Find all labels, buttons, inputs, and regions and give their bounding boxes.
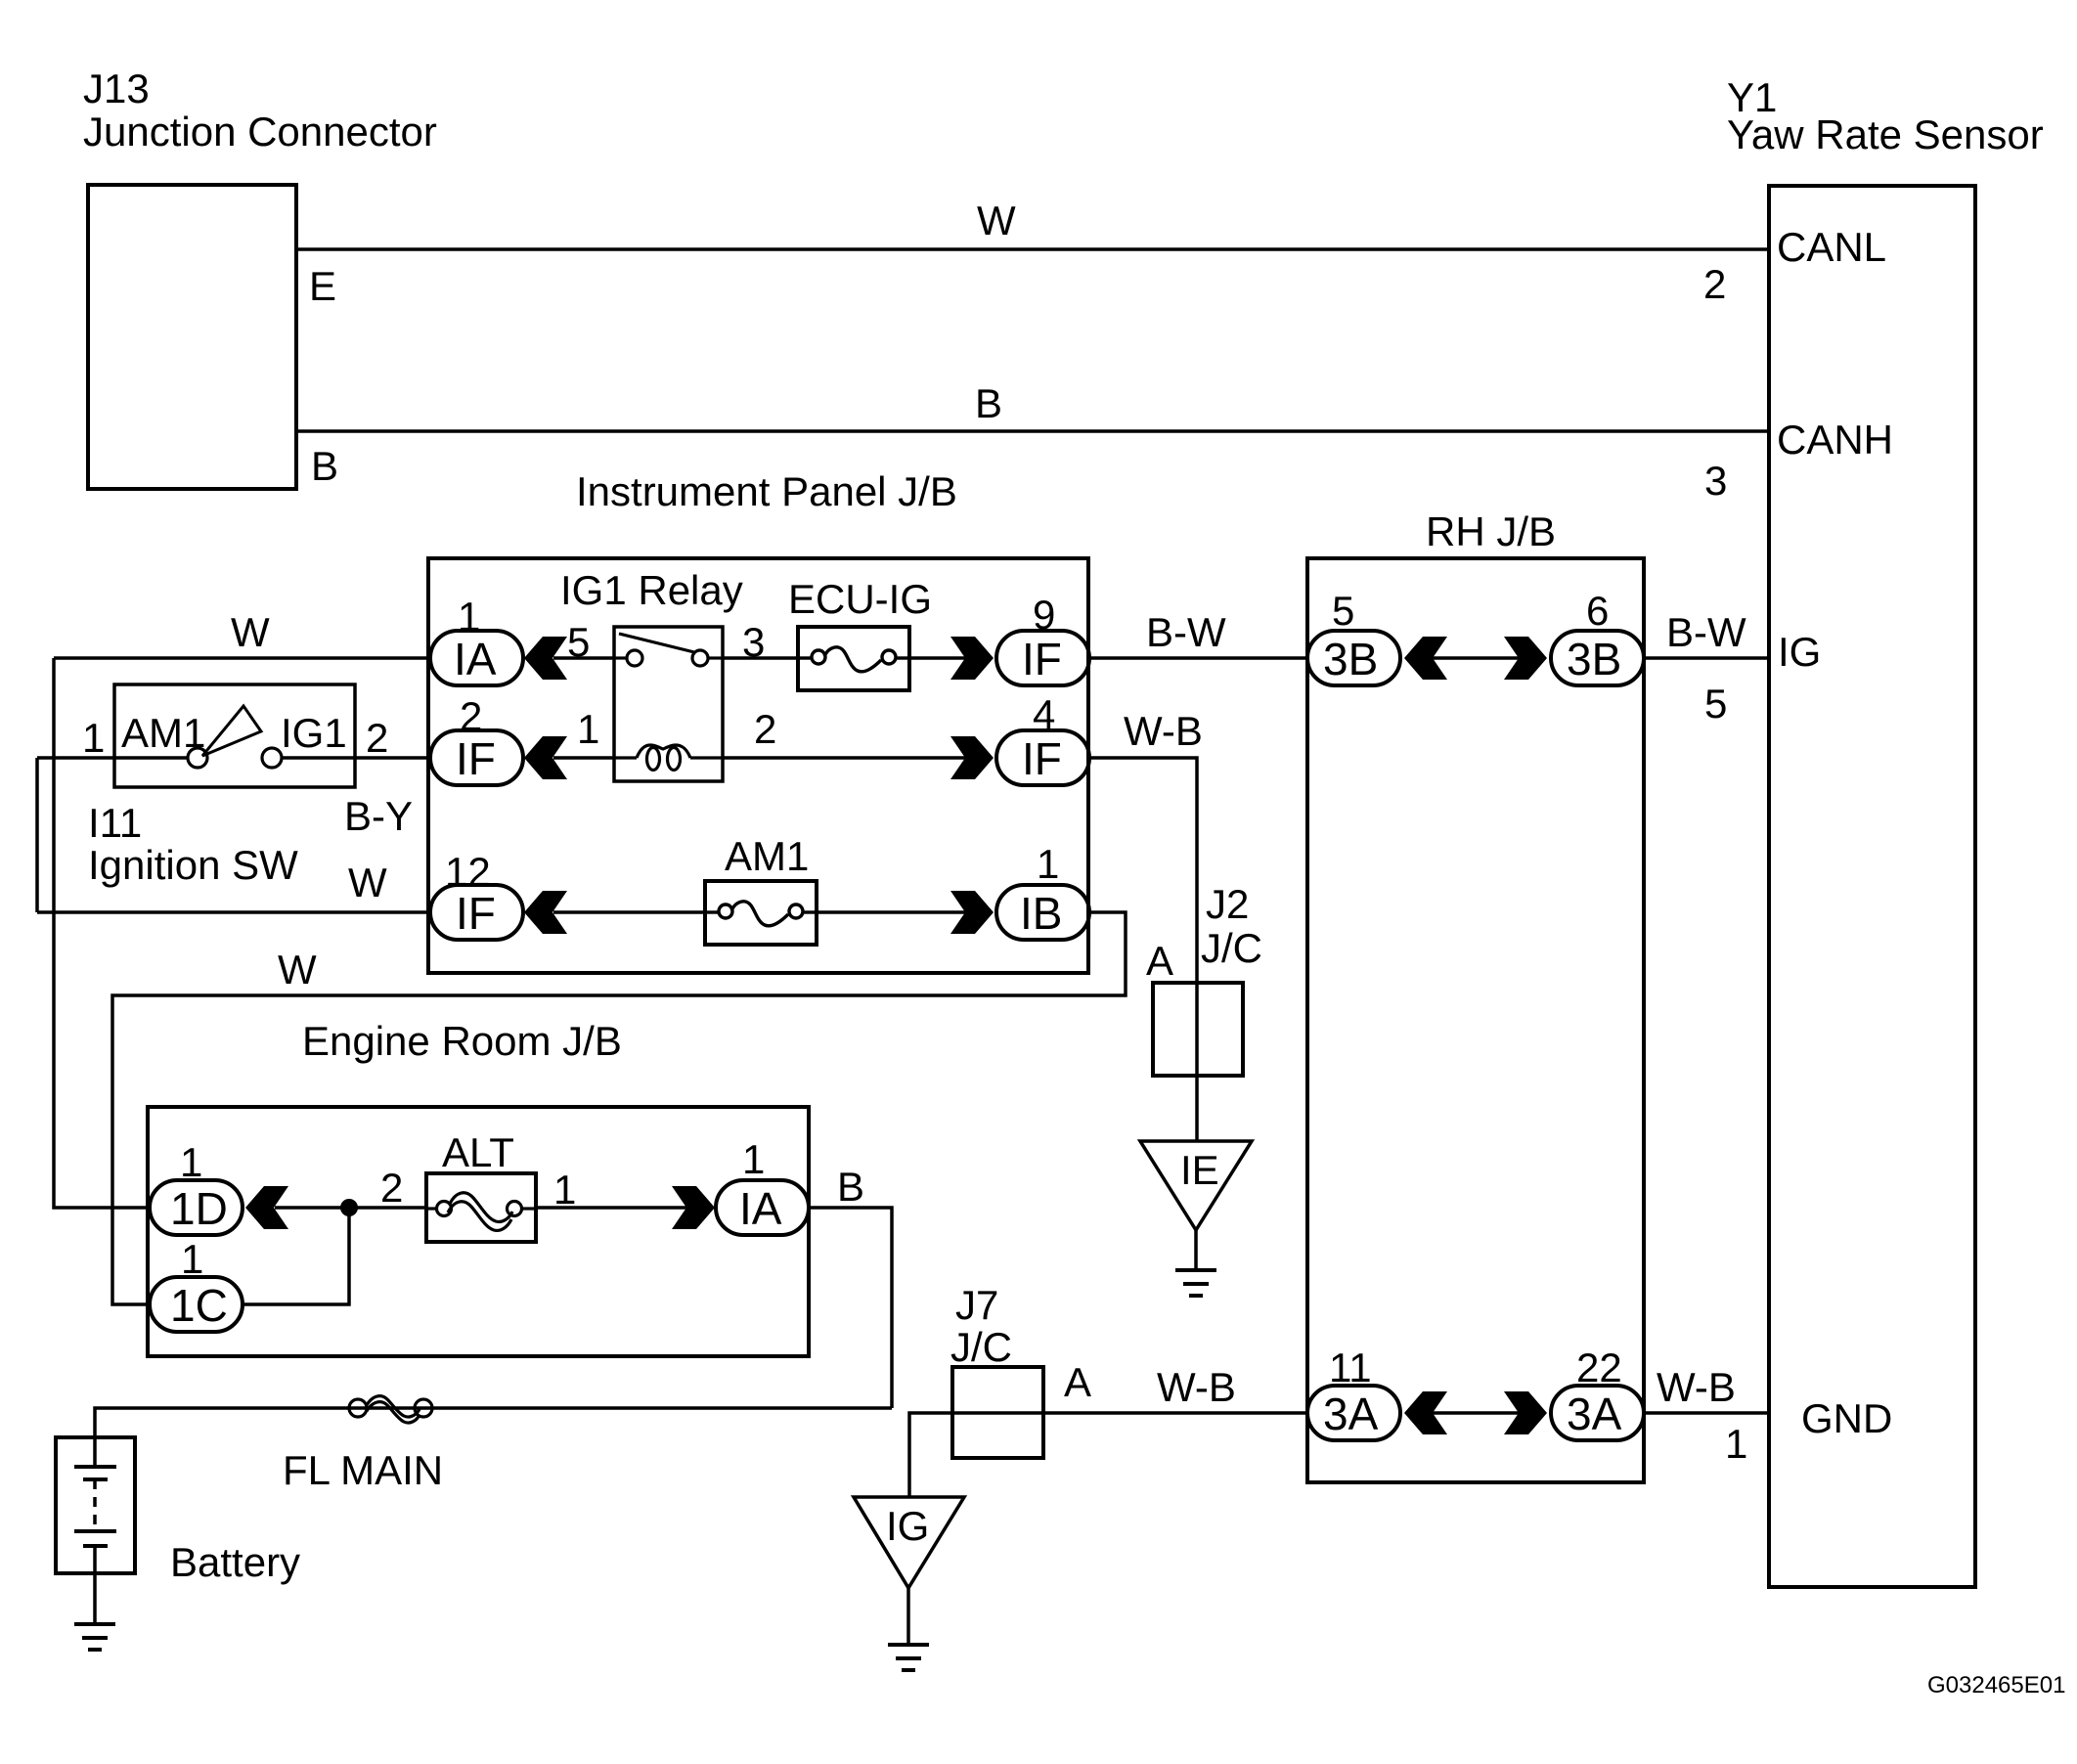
svg-text:Ignition SW: Ignition SW xyxy=(88,842,298,888)
ground xyxy=(1175,1270,1216,1296)
svg-text:GND: GND xyxy=(1801,1395,1892,1441)
svg-text:B: B xyxy=(975,380,1002,426)
arrow xyxy=(524,736,567,779)
svg-text:5: 5 xyxy=(567,619,590,665)
svg-text:2: 2 xyxy=(366,715,388,761)
svg-text:J13: J13 xyxy=(83,66,150,111)
svg-text:IB: IB xyxy=(1020,888,1062,939)
ground triangle IE xyxy=(1140,1141,1252,1230)
svg-text:1: 1 xyxy=(1725,1421,1747,1467)
svg-text:B: B xyxy=(837,1164,864,1210)
svg-text:3A: 3A xyxy=(1323,1389,1379,1439)
relay coil xyxy=(614,745,723,771)
svg-text:W-B: W-B xyxy=(1157,1364,1236,1410)
svg-text:W: W xyxy=(977,198,1016,243)
svg-text:E: E xyxy=(309,263,336,309)
connector IA xyxy=(430,631,523,685)
arrow xyxy=(672,1186,715,1229)
wire IB loop to 1C xyxy=(112,912,1126,1304)
connector IF 12 xyxy=(430,885,523,940)
svg-text:2: 2 xyxy=(754,706,776,752)
wire B-W to Y1 xyxy=(1644,656,1769,660)
svg-text:J/C: J/C xyxy=(950,1324,1012,1370)
connector 1C xyxy=(150,1277,243,1332)
svg-text:B: B xyxy=(311,443,338,489)
wire xyxy=(553,910,705,914)
svg-text:IA: IA xyxy=(454,634,497,684)
wire coil to IF4 xyxy=(723,756,966,760)
svg-text:IA: IA xyxy=(739,1183,782,1234)
svg-text:W-B: W-B xyxy=(1124,708,1203,754)
wire B CANH net xyxy=(296,429,1769,433)
svg-text:1: 1 xyxy=(1037,841,1059,887)
wire xyxy=(1433,1411,1519,1415)
wire battery to FL MAIN xyxy=(95,1408,892,1437)
wire IG to ground xyxy=(906,1588,910,1646)
wire 1C to junction xyxy=(243,1208,349,1304)
RH J/B box xyxy=(1307,558,1644,1482)
svg-text:Engine Room J/B: Engine Room J/B xyxy=(302,1018,622,1064)
wire xyxy=(909,656,966,660)
svg-text:IE: IE xyxy=(1180,1147,1219,1193)
arrow xyxy=(245,1186,288,1229)
svg-text:1: 1 xyxy=(577,706,599,752)
fusible link ALT box xyxy=(426,1173,536,1242)
J7 J/C label xyxy=(950,1282,1012,1370)
svg-text:Instrument Panel J/B: Instrument Panel J/B xyxy=(576,468,957,514)
svg-text:CANL: CANL xyxy=(1777,224,1886,270)
yaw rate sensor Y1 label xyxy=(1727,74,2044,157)
ground xyxy=(888,1645,929,1670)
connector IB 1 xyxy=(996,885,1089,940)
svg-text:IF: IF xyxy=(456,733,496,784)
connector IF 2 xyxy=(430,730,523,785)
wire xyxy=(817,910,966,914)
arrow xyxy=(1404,637,1447,680)
connector IF 9 xyxy=(996,631,1089,685)
connector 3B 5 xyxy=(1307,631,1400,685)
svg-text:5: 5 xyxy=(1704,681,1727,727)
svg-text:11: 11 xyxy=(1329,1345,1372,1390)
svg-text:6: 6 xyxy=(1586,588,1609,634)
wire IA to FL MAIN xyxy=(809,1208,892,1408)
svg-text:22: 22 xyxy=(1576,1345,1622,1390)
svg-text:Junction Connector: Junction Connector xyxy=(83,109,437,154)
battery box xyxy=(56,1437,135,1573)
connector IA engine room xyxy=(716,1180,809,1235)
connector 3A 11 xyxy=(1307,1386,1400,1440)
wire W-B to J2 xyxy=(1089,758,1197,1141)
svg-text:2: 2 xyxy=(1703,261,1726,307)
yaw rate sensor Y1 box xyxy=(1769,186,1975,1587)
svg-text:B-W: B-W xyxy=(1666,609,1746,655)
wire B-W xyxy=(1089,656,1307,660)
relay switch contacts xyxy=(614,634,723,666)
junction connector J2 box xyxy=(1153,983,1243,1076)
svg-text:W: W xyxy=(278,947,317,992)
battery cell plates xyxy=(74,1437,116,1573)
svg-text:A: A xyxy=(1064,1359,1091,1405)
svg-text:2: 2 xyxy=(380,1165,403,1211)
engine room J/B box xyxy=(148,1107,809,1356)
arrow xyxy=(950,637,994,680)
svg-text:A: A xyxy=(1146,938,1173,984)
connector 1D xyxy=(150,1180,243,1235)
fusible link FL MAIN xyxy=(349,1396,432,1423)
svg-text:1D: 1D xyxy=(170,1183,228,1234)
svg-text:1: 1 xyxy=(742,1136,765,1182)
svg-text:IG: IG xyxy=(1778,629,1821,675)
fuse AM1 xyxy=(705,881,817,945)
svg-text:IF: IF xyxy=(1022,634,1062,684)
connector IF 4 xyxy=(996,730,1089,785)
wire W CANL net xyxy=(296,247,1769,251)
svg-text:IG: IG xyxy=(886,1503,929,1549)
junction connector J7 box xyxy=(952,1367,1043,1458)
svg-text:J7: J7 xyxy=(955,1282,998,1328)
switch arm xyxy=(202,706,261,756)
wire IE to ground xyxy=(1194,1230,1198,1271)
svg-text:1: 1 xyxy=(82,715,105,761)
wire to switch xyxy=(37,756,188,760)
svg-text:B-W: B-W xyxy=(1146,609,1226,655)
svg-text:3A: 3A xyxy=(1567,1389,1622,1439)
fuse ECU-IG xyxy=(798,627,909,690)
arrow xyxy=(950,736,994,779)
wire W to IF12 xyxy=(37,910,430,914)
wire B-Y to IF xyxy=(282,756,430,760)
J2 J/C label xyxy=(1201,881,1262,971)
svg-text:1C: 1C xyxy=(170,1280,228,1331)
svg-text:J2: J2 xyxy=(1206,881,1249,927)
svg-text:1: 1 xyxy=(180,1139,202,1185)
instrument panel J/B box xyxy=(428,558,1088,973)
I11 ignition SW label xyxy=(88,800,298,888)
connector 3A 22 xyxy=(1551,1386,1644,1440)
svg-text:W-B: W-B xyxy=(1657,1364,1736,1410)
wire J7 to 3A xyxy=(909,1413,1307,1497)
ground xyxy=(74,1624,115,1650)
svg-text:1: 1 xyxy=(553,1167,576,1213)
arrow xyxy=(1504,1391,1547,1434)
svg-text:Battery: Battery xyxy=(170,1539,300,1585)
arrow xyxy=(524,637,567,680)
svg-text:W: W xyxy=(231,609,270,655)
svg-text:RH J/B: RH J/B xyxy=(1426,508,1556,554)
junction connector J13 label xyxy=(83,66,437,154)
wire xyxy=(553,656,614,660)
svg-text:IG1 Relay: IG1 Relay xyxy=(560,567,743,613)
node junction dot xyxy=(340,1199,358,1216)
svg-text:1: 1 xyxy=(181,1236,203,1282)
svg-text:IF: IF xyxy=(1022,733,1062,784)
svg-text:CANH: CANH xyxy=(1777,417,1893,463)
svg-text:5: 5 xyxy=(1332,588,1354,634)
svg-text:W: W xyxy=(348,860,387,905)
arrow xyxy=(524,891,567,934)
connector 3B 6 xyxy=(1551,631,1644,685)
wire ALT to IA xyxy=(536,1206,687,1210)
arrow xyxy=(1504,637,1547,680)
wire left vertical W net xyxy=(54,658,150,1208)
svg-text:I11: I11 xyxy=(88,800,142,846)
svg-text:AM1: AM1 xyxy=(725,833,809,879)
wire W to IA xyxy=(54,656,430,660)
svg-text:3B: 3B xyxy=(1323,634,1378,684)
relay IG1 box xyxy=(614,627,723,781)
svg-text:IG1: IG1 xyxy=(281,710,347,756)
wire battery to ground xyxy=(93,1573,97,1624)
wire xyxy=(1433,656,1519,660)
svg-text:Yaw Rate Sensor: Yaw Rate Sensor xyxy=(1727,111,2044,157)
junction connector J13 box xyxy=(88,185,296,489)
svg-text:FL MAIN: FL MAIN xyxy=(283,1447,443,1493)
svg-text:IF: IF xyxy=(456,888,496,939)
svg-text:3: 3 xyxy=(1704,458,1727,504)
arrow xyxy=(1404,1391,1447,1434)
svg-text:G032465E01: G032465E01 xyxy=(1927,1672,2065,1698)
ground triangle IG xyxy=(854,1497,964,1588)
wire 1D to ALT xyxy=(275,1206,426,1210)
wire W-B to Y1 GND xyxy=(1644,1411,1769,1415)
wire vertical pin1 to W wire xyxy=(35,758,39,912)
svg-text:B-Y: B-Y xyxy=(344,793,413,839)
arrow xyxy=(950,891,994,934)
wire xyxy=(723,656,798,660)
svg-text:ALT: ALT xyxy=(442,1129,514,1175)
switch contacts xyxy=(188,748,282,768)
svg-text:ECU-IG: ECU-IG xyxy=(788,576,932,622)
svg-text:J/C: J/C xyxy=(1201,925,1262,971)
svg-text:3B: 3B xyxy=(1567,634,1621,684)
wire xyxy=(553,756,614,760)
ignition switch I11 box xyxy=(114,684,355,787)
